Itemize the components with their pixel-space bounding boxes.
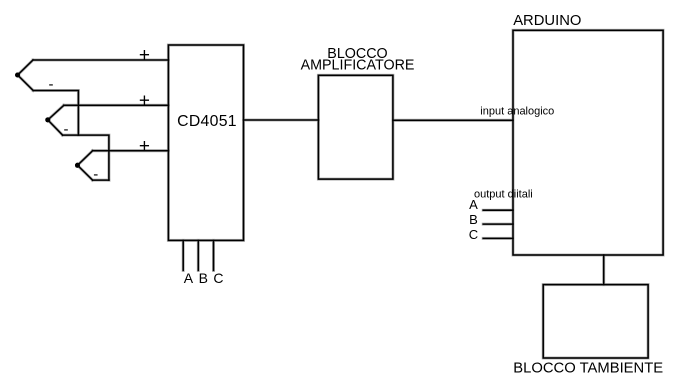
svg-text:-: - (93, 166, 98, 183)
svg-text:B: B (199, 270, 208, 286)
svg-text:C: C (469, 227, 478, 242)
svg-text:output diitali: output diitali (474, 189, 533, 201)
svg-text:A: A (184, 270, 194, 286)
svg-text:+: + (139, 91, 150, 112)
svg-text:A: A (469, 197, 478, 212)
svg-text:B: B (469, 212, 478, 227)
svg-text:AMPLIFICATORE: AMPLIFICATORE (301, 58, 415, 74)
svg-text:CD4051: CD4051 (177, 113, 237, 130)
svg-text:input analogico: input analogico (480, 106, 554, 118)
svg-text:+: + (139, 136, 150, 157)
svg-text:ARDUINO: ARDUINO (513, 13, 581, 29)
svg-text:-: - (49, 76, 54, 93)
svg-text:-: - (64, 121, 69, 138)
svg-text:BLOCCO TAMBIENTE: BLOCCO TAMBIENTE (513, 361, 663, 377)
svg-text:+: + (139, 45, 150, 66)
svg-text:C: C (213, 270, 223, 286)
